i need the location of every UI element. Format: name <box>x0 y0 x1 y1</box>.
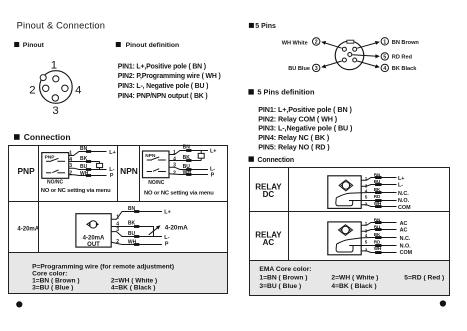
svg-text:BK: BK <box>374 187 381 192</box>
svg-text:BN Brown: BN Brown <box>392 40 420 46</box>
svg-text:3: 3 <box>52 105 58 117</box>
svg-text:1: 1 <box>365 221 368 226</box>
svg-text:BU: BU <box>128 231 136 237</box>
svg-text:4-20mA: 4-20mA <box>17 227 39 233</box>
svg-text:1: 1 <box>116 215 119 221</box>
svg-text:N.C.: N.C. <box>398 191 409 197</box>
svg-text:PIN1: L+,Positive pole ( BN ): PIN1: L+,Positive pole ( BN ) <box>118 63 206 70</box>
svg-text:Pinout definition: Pinout definition <box>126 42 180 49</box>
svg-text:3=BU ( Blue ): 3=BU ( Blue ) <box>259 283 301 290</box>
svg-text:N.C.: N.C. <box>400 236 411 242</box>
svg-text:5=RD ( Red ): 5=RD ( Red ) <box>404 275 444 282</box>
svg-text:PIN2: Relay COM ( WH ): PIN2: Relay COM ( WH ) <box>258 114 338 123</box>
svg-text:AC: AC <box>263 238 275 247</box>
svg-text:PIN3: L-, Negative pole ( BU ): PIN3: L-, Negative pole ( BU ) <box>118 83 208 90</box>
svg-text:NO/NC: NO/NC <box>148 180 165 186</box>
svg-text:3: 3 <box>315 66 318 72</box>
svg-text:NO or NC setting via menu: NO or NC setting via menu <box>144 191 214 197</box>
svg-text:N.O.: N.O. <box>398 198 410 204</box>
svg-text:BU: BU <box>374 179 381 184</box>
svg-text:Pinout: Pinout <box>23 42 45 49</box>
svg-text:PNP: PNP <box>17 166 35 176</box>
svg-text:2: 2 <box>29 85 35 97</box>
svg-text:BU Blue: BU Blue <box>288 66 310 72</box>
svg-text:3: 3 <box>69 163 72 169</box>
svg-text:BN: BN <box>80 146 88 152</box>
svg-text:L+: L+ <box>398 176 404 182</box>
svg-text:PNP: PNP <box>45 154 56 160</box>
svg-text:NO or NC setting via menu: NO or NC setting via menu <box>41 188 111 194</box>
svg-text:2: 2 <box>116 239 119 245</box>
svg-text:P: P <box>165 242 169 248</box>
svg-text:2: 2 <box>173 170 176 176</box>
svg-text:NPN: NPN <box>120 166 138 176</box>
svg-text:AC: AC <box>400 221 408 227</box>
svg-text:RD: RD <box>374 239 381 244</box>
svg-text:WH: WH <box>374 246 382 251</box>
svg-text:1: 1 <box>69 151 72 157</box>
svg-text:BK: BK <box>183 155 191 161</box>
svg-text:BN: BN <box>183 145 191 151</box>
svg-text:5 Pins: 5 Pins <box>255 23 276 30</box>
svg-text:5: 5 <box>365 240 368 245</box>
svg-text:COM: COM <box>400 250 413 256</box>
svg-text:4=BK ( Black ): 4=BK ( Black ) <box>331 283 376 290</box>
svg-text:Connection: Connection <box>258 157 294 164</box>
svg-text:DC: DC <box>263 190 275 199</box>
svg-text:L-: L- <box>398 183 403 189</box>
svg-text:5: 5 <box>383 54 386 60</box>
svg-text:4-20mA: 4-20mA <box>165 224 188 231</box>
svg-text:BK: BK <box>374 232 381 237</box>
svg-text:WH: WH <box>80 171 89 177</box>
svg-text:N.O.: N.O. <box>400 243 412 249</box>
svg-text:BK: BK <box>128 220 136 226</box>
svg-text:PIN4: Relay NC ( BK ): PIN4: Relay NC ( BK ) <box>258 133 330 142</box>
svg-text:L+: L+ <box>210 149 216 155</box>
svg-text:BU: BU <box>80 164 88 170</box>
svg-text:2: 2 <box>365 201 368 206</box>
svg-text:COM: COM <box>398 205 411 211</box>
svg-text:RD Red: RD Red <box>392 55 413 61</box>
svg-text:3: 3 <box>173 163 176 169</box>
svg-text:WH White: WH White <box>282 41 308 47</box>
svg-text:4: 4 <box>75 85 81 97</box>
svg-text:WH: WH <box>128 240 137 246</box>
svg-text:PIN3: L-,Negative pole ( BU ): PIN3: L-,Negative pole ( BU ) <box>258 124 353 133</box>
svg-text:BN: BN <box>374 173 381 178</box>
svg-text:PIN5: Relay NO ( RD ): PIN5: Relay NO ( RD ) <box>258 143 330 152</box>
svg-text:3=BU ( Blue ): 3=BU ( Blue ) <box>32 284 73 291</box>
svg-text:WH: WH <box>183 170 192 176</box>
svg-text:BN: BN <box>128 206 136 212</box>
svg-text:PIN2: P,Programming wire ( WH: PIN2: P,Programming wire ( WH ) <box>118 73 221 80</box>
svg-text:L+: L+ <box>164 210 170 216</box>
svg-text:1: 1 <box>51 59 57 71</box>
svg-text:BU: BU <box>183 164 191 170</box>
svg-text:PIN4: PNP/NPN output ( BK ): PIN4: PNP/NPN output ( BK ) <box>118 93 208 100</box>
svg-text:3: 3 <box>116 227 119 233</box>
svg-text:BK Black: BK Black <box>392 66 417 72</box>
svg-text:Connection: Connection <box>24 132 71 142</box>
svg-text:4=BK ( Black ): 4=BK ( Black ) <box>111 284 156 291</box>
svg-text:Pinout & Connection: Pinout & Connection <box>17 21 106 31</box>
svg-text:RD: RD <box>374 194 381 199</box>
svg-text:4: 4 <box>173 156 176 162</box>
svg-text:AC: AC <box>400 228 408 234</box>
svg-text:1: 1 <box>365 176 368 181</box>
svg-text:2: 2 <box>365 247 368 252</box>
svg-text:P: P <box>211 172 215 178</box>
svg-text:NO/NC: NO/NC <box>47 179 64 185</box>
svg-text:BK: BK <box>80 156 88 162</box>
svg-text:P: P <box>110 173 114 179</box>
svg-text:4: 4 <box>383 66 386 72</box>
svg-text:2: 2 <box>315 40 318 46</box>
svg-text:PIN1: L+,Positive pole ( BN ): PIN1: L+,Positive pole ( BN ) <box>258 105 352 114</box>
svg-text:BN: BN <box>374 218 381 223</box>
svg-text:4-20mA: 4-20mA <box>83 235 105 241</box>
svg-text:L-: L- <box>109 167 114 173</box>
svg-text:5 Pins definition: 5 Pins definition <box>257 87 315 96</box>
svg-text:1: 1 <box>383 39 386 45</box>
svg-text:4: 4 <box>365 233 368 238</box>
svg-text:BU: BU <box>374 225 381 230</box>
svg-text:2=WH ( White ): 2=WH ( White ) <box>331 275 378 282</box>
svg-text:1=BN ( Brown ): 1=BN ( Brown ) <box>259 275 307 282</box>
svg-text:2: 2 <box>69 171 72 177</box>
svg-text:4: 4 <box>69 157 72 163</box>
svg-text:NPN: NPN <box>145 153 156 159</box>
svg-text:L-: L- <box>164 235 169 241</box>
svg-text:4: 4 <box>365 188 368 193</box>
svg-text:L+: L+ <box>109 150 115 156</box>
svg-text:EMA Core color:: EMA Core color: <box>259 266 311 273</box>
svg-text:WH: WH <box>374 201 382 206</box>
svg-text:5: 5 <box>365 195 368 200</box>
svg-text:OUT: OUT <box>87 242 100 248</box>
svg-text:1: 1 <box>173 150 176 156</box>
